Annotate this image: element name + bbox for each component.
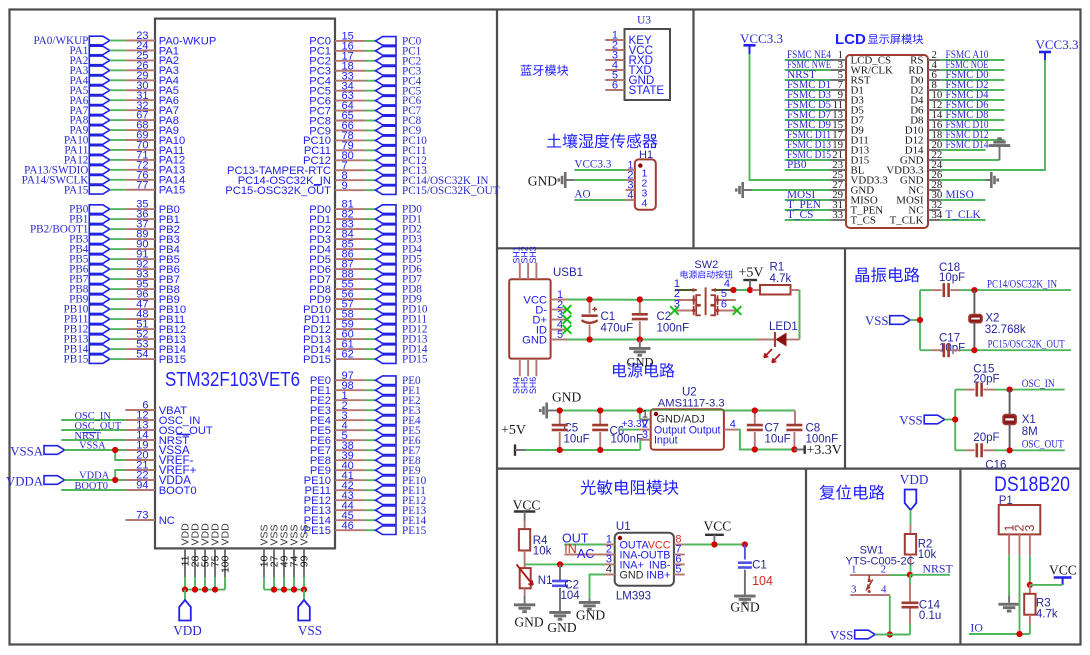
MCU left pin 89 PB3 [69,229,180,246]
svg-text:VCC: VCC [1049,563,1077,578]
MCU pin 12 OSC_IN [61,410,200,427]
U1 pin 4 [605,564,615,576]
MCU right pin 45 PE14 [304,510,427,527]
U1 pin 6 [674,554,685,566]
MCU left pin 54 PB15 [64,349,187,366]
USB1 shield pin SH3 [528,246,538,279]
wire LCD pin26 to ground [940,179,985,181]
MCU right pin 97 PE0 [310,370,421,387]
svg-text:0.1u: 0.1u [919,610,941,622]
no-connect SW2 pin 6 [733,306,742,315]
VSS flag reset [830,628,910,642]
MCU right pin 43 PE12 [304,490,427,507]
wire R4 N1 junction to U1 pin3 [525,563,605,565]
wire VSS vertical 32k [919,290,921,350]
no-connect USB1 pin 3 [563,315,572,324]
LCD pin 23 BL [785,159,865,176]
wire VCC rail USB1 pin1 to SW2 pin2 [567,299,676,301]
switch SW1 YTS-C005-2C [846,545,915,568]
svg-text:10pF: 10pF [939,272,965,284]
svg-text:100nF: 100nF [657,323,690,335]
capacitor C17 10pF [920,333,974,358]
MCU right pin 57 PD10 [303,299,428,316]
svg-text:GND: GND [626,355,653,369]
SW1 pin 2 [869,564,889,576]
LCD pin 5 RST [785,69,871,86]
LCD pin 33 T_CS [785,209,876,226]
MCU right pin 40 PE9 [310,460,421,477]
op-amp U? MCU STM32F103VET6 body [155,19,335,549]
svg-text:VSSA: VSSA [10,444,43,458]
MCU left pin 31 PA6 [70,90,180,107]
svg-text:U3: U3 [637,15,651,27]
svg-text:AMS1117-3.3: AMS1117-3.3 [658,398,725,410]
U2 pin 3 [640,429,651,441]
MCU right pin 64 PC7 [309,100,421,117]
svg-text:SH3: SH3 [528,246,538,263]
svg-text:99: 99 [299,555,311,567]
LCD pin 20 D14 [905,139,989,156]
svg-text:PB15: PB15 [159,354,186,366]
capacitor C16 20pF [955,432,1009,472]
power +3.3V [794,443,842,458]
MCU VDD pin 11 [180,523,192,590]
svg-text:VSS: VSS [299,524,311,545]
MCU left pin 90 PB4 [69,239,180,256]
P1 pin 3 [1029,534,1031,555]
MCU right pin 83 PD2 [309,219,422,236]
SW1 actuator [866,575,873,593]
capacitor C6 100nF [592,411,643,451]
LCD pin 30 MOSI [896,189,985,206]
SW2 center pole [705,287,707,315]
svg-text:VSS: VSS [298,623,322,638]
U1 pin 1 OUT net [562,531,615,545]
MCU left pin 30 PA5 [70,80,180,97]
wire VSS bus [264,589,304,591]
svg-text:4: 4 [730,419,736,431]
USB1 pin 4 ID [536,319,567,336]
H1 pin 1 [626,160,648,180]
MCU VSS pin 99 [299,524,311,589]
power VCC left [513,498,541,522]
svg-text:10k: 10k [533,546,552,558]
MCU pin 13 OSC_OUT [61,420,213,437]
MCU left pin 67 PA8 [70,110,180,127]
svg-text:BOOT0: BOOT0 [159,485,197,497]
MCU left pin 96 PB9 [69,289,180,306]
svg-text:33: 33 [832,209,843,221]
ground below C2 [547,611,576,635]
MCU pin 73 NC [125,510,174,527]
MCU right pin 88 PD7 [309,269,422,286]
MCU left pin 68 PA9 [70,120,180,137]
MCU right pin 8 PC14-OSC32K_IN [238,170,489,187]
USB1 pin 5 GND [522,329,566,346]
ground at LCD pin22 [989,137,1010,160]
MCU right pin 5 PE6 [310,430,421,447]
resistor R1 4.7k [752,262,800,295]
LCD pin 17 D11 [785,129,869,146]
ground at LCD pin27 [735,182,830,198]
svg-text:GND: GND [576,608,605,623]
MCU right pin 9 PC15-OSC32K_OUT [225,180,499,197]
connector LCD body [846,55,928,228]
svg-text:5: 5 [557,329,563,341]
wire OSC_OUT net [1010,449,1065,451]
resistor R3 4.7k [1024,585,1058,634]
svg-text:T_CLK: T_CLK [890,215,924,227]
svg-text:PC15/OSC32K_OUT: PC15/OSC32K_OUT [988,337,1066,351]
svg-text:+3.3V: +3.3V [806,443,842,458]
ground at LCD pin26 [990,172,999,188]
PC15-OSC32K_OUT overline [314,184,322,186]
svg-text:IO: IO [970,620,983,634]
svg-text:STATE: STATE [629,84,665,97]
svg-text:X2: X2 [985,313,999,325]
MCU right pin 18 PC3 [309,60,421,77]
MCU right pin 17 PC2 [309,50,421,67]
svg-text:VDD: VDD [220,523,232,546]
MCU right pin 87 PD6 [309,259,422,276]
svg-text:77: 77 [136,179,148,191]
svg-text:SW2: SW2 [694,259,718,271]
MCU left pin 76 PA14 [22,169,186,186]
svg-text:DS18B20: DS18B20 [994,473,1070,496]
svg-text:Input: Input [654,434,678,446]
ground below P1 pin1 [998,595,1019,612]
MCU left pin 48 PB11 [64,309,185,326]
MCU VSS pin 27 [269,524,281,589]
U1 pin 3 AC net [577,547,615,566]
MCU right pin 86 PD5 [309,249,422,266]
MCU left pin 25 PA2 [70,50,180,67]
power port VDD [173,590,202,638]
LCD pin 7 D1 [785,79,864,96]
MCU right pin 46 PE15 [304,520,427,537]
MCU VDD pin 100 [220,523,232,590]
svg-text:N1: N1 [538,575,553,587]
svg-text:SH6: SH6 [528,377,538,394]
svg-text:VSS: VSS [865,314,888,328]
svg-text:GND: GND [547,620,576,635]
MCU right pin 98 PE1 [310,380,421,397]
MCU right pin 60 PD13 [303,329,428,346]
LCD pin 22 GND [900,149,942,166]
svg-text:94: 94 [136,480,148,492]
svg-text:GND: GND [552,390,581,405]
connector U3 [625,15,671,101]
connector H1 [635,149,656,210]
svg-text:GND: GND [514,615,543,630]
LCD pin 1 LCD_CS [785,49,891,66]
capacitor C18 10pF [920,262,974,297]
MCU right pin 7 PC13-TAMPER-RTC [227,160,427,177]
wire AO to H1 pin4 [574,199,625,201]
svg-text:VDDA: VDDA [79,470,110,481]
MCU left pin 37 PB2 [30,219,180,236]
svg-text:VCC3.3: VCC3.3 [1036,37,1079,52]
SW2 pin 4 [711,278,733,292]
MCU right pin 55 PD8 [309,279,422,296]
capacitor C5 10uF [552,411,590,451]
svg-text:MISO: MISO [946,189,974,201]
ground GND to H1 pin2 [528,172,626,189]
U1 pin 7 [674,544,685,556]
svg-text:20pF: 20pF [973,432,999,444]
MCU left pin 23 PA0-WKUP [33,30,216,47]
MCU right pin 59 PD12 [303,319,428,336]
SW2 pin 2 [674,288,701,305]
svg-text:104: 104 [752,574,773,588]
svg-text:U1: U1 [616,521,631,533]
MCU left pin 52 PB13 [64,329,187,346]
U2 pin 2 +3.3V [620,419,651,431]
svg-text:2: 2 [881,564,887,576]
U3 pin 4 TXD [605,60,651,77]
svg-text:GND: GND [620,570,644,582]
wire VSS vertical 8M [954,390,956,451]
SW2 pin 5 [711,288,736,305]
svg-text:PD15: PD15 [402,354,428,366]
MCU right pin 38 PE7 [310,440,421,457]
label soil moisture sensor title [547,133,658,148]
MCU left pin 72 PA13 [24,159,185,176]
MCU right pin 79 PC11 [304,140,427,157]
MCU right pin 3 PE4 [310,410,421,427]
wire GND rail to U2 pin1 and C7 C8 [556,410,795,412]
svg-text:LCD: LCD [835,31,866,48]
svg-text:46: 46 [342,520,354,532]
resistor R4 10k [519,521,552,564]
MCU right pin 56 PD9 [309,289,422,306]
switch SW2 power button [694,259,718,271]
label LCD module title [835,31,866,48]
VSS flag 8M [899,413,955,427]
svg-text:100nF: 100nF [611,434,644,446]
MCU right pin 80 PC12 [303,150,427,167]
MCU right pin 58 PD11 [304,309,427,326]
svg-text:4: 4 [627,190,633,202]
svg-text:PC15-OSC32K_OUT: PC15-OSC32K_OUT [225,185,331,197]
svg-text:C2: C2 [657,311,672,323]
MCU left pin 29 PA4 [70,70,180,87]
MCU right pin 2 PE3 [310,400,421,417]
capacitor C8 100nF [786,411,838,450]
USB1 shield pin SH1 [511,246,521,279]
wire U2 pin4 to +3.3V rail [738,430,794,450]
wire PC14/OSC32K_IN net [974,289,1071,291]
MCU VSS pin 10 [259,524,271,589]
MCU VSS pin 49 [279,524,291,589]
LCD pin 24 VDD3.3 [886,159,943,176]
LCD pin 29 MISO [785,189,878,206]
LCD pin 31 T_PEN [785,199,884,216]
MCU left pin 93 PB7 [69,269,180,286]
MCU left pin 70 PA11 [64,140,184,157]
svg-text:PA15: PA15 [159,185,186,197]
MCU left pin 77 PA15 [64,179,185,196]
wire SW1 pin2 to NRST node [889,574,910,576]
MCU right pin 62 PD15 [303,349,428,366]
U1 pin 2 IN net [564,542,614,556]
MCU left pin 32 PA7 [70,100,180,117]
wire IO net [969,620,1030,634]
svg-text:BOOT0: BOOT0 [75,481,108,492]
power port VSS [298,590,322,638]
svg-text:C16: C16 [985,459,1006,471]
wire PC15/OSC32K_OUT net [974,349,1071,351]
svg-text:4: 4 [606,564,612,576]
MCU right pin 39 PE8 [310,450,421,467]
MCU right pin 82 PD1 [309,209,422,226]
crystal X2 32.768k [969,290,1026,350]
P1 pin 2 [1019,534,1021,555]
svg-text:LM393: LM393 [616,591,651,603]
H1 pin 3 [626,180,648,200]
LCD pin 4 RD [908,59,1004,76]
svg-text:GND: GND [522,334,547,346]
MCU right pin 42 PE11 [304,480,425,497]
USB1 pin 1 VCC [523,289,566,306]
svg-text:5: 5 [675,564,681,576]
H1 pin 4 [626,190,648,210]
power port VDD reset [900,472,929,525]
MCU right pin 66 PC9 [309,120,421,137]
svg-text:R1: R1 [770,262,785,274]
wire GND rail USB1 pin5 to LED1 [567,339,758,341]
LCD pin 11 D5 [785,99,865,116]
SW2 pin 3 [674,299,701,316]
U2 pin 4 [724,419,738,431]
MCU left pin 24 PA1 [70,40,180,57]
power +5V into bottom rail [501,423,526,456]
svg-text:73: 73 [136,510,148,522]
svg-text:470uF: 470uF [601,323,634,335]
svg-text:OSC_OUT: OSC_OUT [1022,437,1065,451]
MCU left pin 26 PA3 [70,60,180,77]
svg-text:PB15: PB15 [64,354,89,366]
MCU left pin 69 PA10 [64,130,185,147]
svg-text:9: 9 [342,180,348,192]
svg-text:FSMC D14: FSMC D14 [946,139,989,151]
MCU right pin 41 PE10 [304,470,427,487]
label reset circuit title [820,485,885,500]
P1 pin 1 [1008,534,1010,555]
capacitor C2 104 blue [552,564,580,611]
resistor R2 10k [905,525,937,575]
capacitor C14 0.1u [902,575,942,635]
svg-text:USB1: USB1 [553,267,583,279]
wire R1 to LED1 [799,290,801,340]
wire +5V rail to U2 pin3 [525,449,640,451]
wire OSC_IN net [1010,389,1065,391]
svg-text:C1: C1 [601,311,616,323]
MCU left pin 71 PA12 [64,150,185,167]
SW2 pin 6 [711,299,736,316]
svg-text:Output: Output [689,425,721,437]
svg-text:+5V: +5V [739,266,764,281]
MCU right pin 16 PC1 [309,40,421,57]
svg-text:T_CLK: T_CLK [946,209,982,221]
USB1 pin 3 D+ [532,309,566,326]
MCU left pin 92 PB6 [69,259,180,276]
svg-text:4: 4 [642,197,648,209]
ground GND below C2 [626,340,653,370]
svg-text:32.768k: 32.768k [985,324,1026,336]
U1 pin 8 VCC [674,534,745,546]
svg-text:4.7k: 4.7k [1036,609,1058,621]
connector USB1 [509,267,583,359]
LCD pin 9 D3 [785,89,865,106]
MCU left pin 51 PB12 [64,319,187,336]
svg-text:PE15: PE15 [402,525,427,537]
LCD pin 25 VDD3.3 [830,169,888,186]
MCU right pin 84 PD3 [309,229,422,246]
LCD pin 32 NC [908,199,942,216]
capacitor C15 20pF [955,364,1009,397]
svg-text:4.7k: 4.7k [770,273,792,285]
MCU pin 19 VSSA with VSSA flag [10,440,190,459]
MCU pin 22 VDDA with VDDA flag [6,470,191,489]
svg-text:1: 1 [851,564,857,576]
svg-text:62: 62 [342,349,354,361]
MCU right pin 78 PC10 [303,130,427,147]
svg-text:T_CS: T_CS [787,209,813,221]
svg-text:VDD: VDD [173,623,202,638]
LCD pin 10 D4 [910,89,1004,106]
wire P1 pin2 to IO rail [1019,555,1021,634]
svg-text:INB+: INB+ [646,570,670,582]
svg-text:AO: AO [574,188,590,200]
ground below U1 pin4 [576,598,605,622]
MCU right pin 61 PD14 [303,339,428,356]
svg-text:6: 6 [721,299,727,311]
MCU right pin 81 PD0 [309,199,422,216]
NRST overline [177,433,191,435]
MCU pin 20 VREF- [125,450,193,467]
MCU left pin 91 PB5 [69,249,180,266]
power VCC3.3 left of LCD [740,31,783,54]
svg-text:VDDA: VDDA [6,474,44,488]
svg-text:3: 3 [1023,525,1037,532]
MCU right pin 33 PC4 [309,70,421,87]
svg-text:PC15/OSC32K_OUT: PC15/OSC32K_OUT [402,185,500,197]
capacitor C1 470uF [582,300,634,340]
MCU right pin 63 PC6 [309,90,421,107]
svg-text:VCC: VCC [513,498,541,513]
MCU VDD pin 50 [200,523,212,590]
MCU VDD pin 75 [210,523,222,590]
svg-text:NC: NC [159,515,175,527]
svg-text:3: 3 [851,584,857,596]
LCD pin 19 D13 [785,139,870,156]
LED LED1 [757,321,800,363]
VSS flag 32k [865,314,920,328]
MCU left pin 47 PB10 [64,299,187,316]
MCU pin 6 VBAT [125,400,187,417]
LCD pin 18 D12 [905,129,1005,146]
svg-text:PB0: PB0 [787,159,807,171]
label photoresistor module title [581,480,679,495]
svg-text:100: 100 [220,555,232,573]
LCD pin 8 D2 [910,79,1004,96]
MCU pin 21 VREF+ [125,460,196,477]
svg-text:PC14/OSC32K_IN: PC14/OSC32K_IN [987,276,1057,290]
capacitor C7 10uF [747,411,791,450]
svg-text:6: 6 [612,80,618,92]
wire VDDA to VREF+ jog [115,470,125,480]
